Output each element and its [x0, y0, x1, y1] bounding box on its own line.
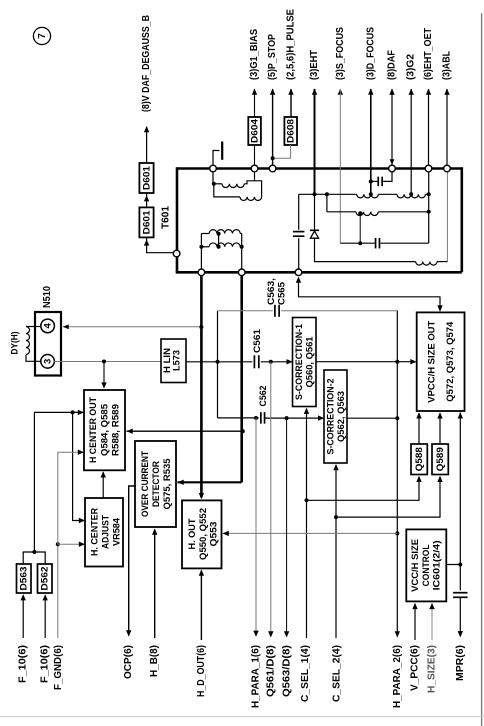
svg-text:(3)ABL: (3)ABL	[442, 51, 453, 80]
wire H_B	[154, 530, 156, 639]
capacitor on S_FOCUS line	[375, 238, 377, 249]
capacitor DAF coupling	[377, 177, 379, 187]
svg-text:C562: C562	[258, 386, 269, 407]
diode box D608	[284, 117, 297, 145]
wire DAF vertical	[391, 89, 393, 165]
wire F_GND to H CENTER OUT	[58, 452, 83, 544]
svg-text:C565: C565	[276, 281, 287, 305]
block VCC/H SIZE CONTROL IC601	[406, 529, 446, 601]
page fold line bottom	[0, 716, 484, 718]
svg-text:(2,5,6)H_PULSE: (2,5,6)H_PULSE	[286, 9, 297, 80]
wire riser lower	[298, 238, 300, 269]
diode box D563	[17, 564, 32, 593]
svg-text:Q563/D(8): Q563/D(8)	[282, 645, 293, 697]
svg-text:T601: T601	[161, 206, 172, 229]
svg-text:H_D_OUT(6): H_D_OUT(6)	[196, 645, 207, 697]
junction H_PARA_1 tap	[254, 416, 258, 420]
svg-text:7: 7	[37, 33, 48, 39]
wire OCP	[129, 486, 136, 636]
junction Q561/D tap	[269, 360, 273, 364]
capacitor C561	[253, 355, 255, 368]
svg-text:Q588: Q588	[414, 447, 425, 471]
svg-text:(3)S_FOCUS: (3)S_FOCUS	[335, 27, 346, 80]
wire EHT to diode	[314, 194, 316, 230]
wire to H CENTER OUT right	[127, 430, 242, 432]
wire D608 jog to P_STOP line	[273, 145, 291, 158]
winding T601 S2	[214, 184, 240, 197]
wire row2 tap riser	[359, 213, 361, 244]
node T601 pin G1_BIAS	[251, 165, 258, 172]
wire H_PARA_2 to H.OUT right	[223, 532, 398, 534]
wire C563 line left	[218, 310, 273, 312]
wire bus primary-right down	[240, 276, 243, 483]
wire bus primary-left down to H.OUT	[200, 276, 203, 498]
svg-text:(3)EHT: (3)EHT	[309, 50, 320, 80]
svg-text:(3)D_FOCUS: (3)D_FOCUS	[365, 27, 376, 80]
wire riser C-select	[217, 311, 219, 418]
block S-CORRECTION-2 Q562 Q563	[324, 370, 347, 463]
node T601 pin primary right	[238, 269, 245, 276]
svg-text:Q589: Q589	[435, 447, 446, 471]
svg-text:(6)EHT_OET: (6)EHT_OET	[423, 28, 434, 80]
junction row1 right	[427, 192, 431, 196]
wire P left rail	[200, 234, 202, 270]
wire D604 to node	[254, 145, 256, 165]
svg-text:VCC/H SIZE: VCC/H SIZE	[410, 539, 421, 592]
junction Q563/D tap	[285, 416, 289, 420]
winding T601 C	[356, 212, 378, 216]
junction tap bottom	[217, 245, 221, 249]
junction MPR	[458, 563, 462, 567]
wire EHT_OET vertical upper	[428, 89, 430, 165]
diode box D601 upper	[139, 163, 153, 193]
junction tap top	[217, 232, 221, 236]
junction D608-P_STOP	[271, 156, 275, 160]
node T601 pin top1	[210, 165, 217, 172]
svg-text:MPR(6): MPR(6)	[455, 645, 466, 681]
svg-text:C_SEL_1(4): C_SEL_1(4)	[300, 645, 311, 702]
winding T601 A	[357, 194, 379, 198]
svg-text:Q584, Q585: Q584, Q585	[100, 403, 111, 456]
svg-text:V_PCC(6): V_PCC(6)	[410, 645, 421, 691]
wire C_SEL_2	[335, 465, 337, 638]
wire H CENTER ADJUST to H CENTER OUT	[102, 472, 104, 498]
wire EHT vertical	[314, 89, 316, 194]
winding T601 S1	[214, 183, 222, 185]
svg-text:VR584: VR584	[112, 517, 123, 546]
wire MPR upper	[459, 413, 461, 591]
wire winding D to ABL rail	[437, 261, 447, 263]
svg-text:3: 3	[43, 359, 54, 364]
junction H_PARA_2 mid	[395, 360, 399, 364]
wire cap to DAF node	[383, 172, 392, 182]
svg-text:Q572, Q573, Q574: Q572, Q573, Q574	[445, 321, 456, 402]
svg-text:H_PARA_2(6): H_PARA_2(6)	[392, 645, 403, 708]
svg-text:S-CORRECTION-2: S-CORRECTION-2	[326, 379, 337, 455]
svg-text:N510: N510	[42, 286, 53, 308]
wire MPR lower	[459, 597, 461, 636]
wire Q589 base feed	[336, 477, 440, 517]
svg-text:D608: D608	[286, 119, 297, 143]
svg-text:Q553: Q553	[209, 522, 220, 547]
junction row2 right	[427, 210, 431, 214]
junction row1 EHT	[313, 192, 317, 196]
wire thick top rail of T601 secondary	[177, 167, 462, 170]
wire thick left rail	[176, 167, 179, 272]
wire row1-row2 link	[326, 194, 328, 212]
svg-text:H. CENTER: H. CENTER	[90, 508, 101, 556]
svg-text:F_GND(6): F_GND(6)	[53, 645, 64, 690]
svg-text:H_SIZE(3): H_SIZE(3)	[427, 645, 438, 693]
diode box D601 lower	[139, 207, 153, 237]
svg-text:IC601(2/4): IC601(2/4)	[432, 540, 443, 590]
svg-text:DETECTOR: DETECTOR	[151, 461, 162, 507]
svg-text:(3)G1_BIAS: (3)G1_BIAS	[249, 29, 260, 80]
wire diode to winding D	[315, 238, 416, 261]
svg-text:F_10(6): F_10(6)	[40, 645, 51, 683]
junction C_SEL_2 Q589	[334, 515, 338, 519]
node T601 pin P_STOP	[269, 165, 276, 172]
svg-text:F_10(6): F_10(6)	[18, 645, 29, 683]
wire F_10 a	[22, 595, 24, 638]
wire secondary row1	[299, 193, 357, 195]
page number circle 7	[33, 27, 50, 44]
svg-text:R588, R589: R588, R589	[111, 404, 122, 456]
svg-text:VPCC/H SIZE OUT: VPCC/H SIZE OUT	[427, 321, 438, 403]
svg-text:DY(H): DY(H)	[10, 332, 21, 355]
junction F_GND branch	[56, 542, 60, 546]
winding T601 D	[416, 262, 437, 266]
connector pin 4	[41, 319, 55, 333]
block OVER CURRENT DETECTOR Q575 R535	[135, 441, 176, 527]
svg-text:H. OUT: H. OUT	[187, 518, 198, 549]
svg-text:C561: C561	[252, 328, 263, 353]
wire diode header bar	[23, 552, 45, 564]
junction C_SEL_1 Q588	[305, 498, 309, 502]
winding T601 B	[397, 194, 425, 198]
inductor deflection yoke	[26, 327, 30, 355]
wire G1_BIAS to D604	[254, 89, 256, 117]
junction pin3 branch	[102, 360, 106, 364]
wire C562 to S-CORRECTION-2	[265, 417, 324, 419]
wire P right rail	[241, 234, 243, 270]
arrow into upper D601	[144, 195, 149, 201]
svg-text:D604: D604	[249, 118, 260, 143]
wire S1 tap from node	[212, 165, 214, 184]
svg-text:OVER CURRENT: OVER CURRENT	[140, 451, 151, 517]
wire between D601 boxes	[146, 193, 148, 207]
wire C_SEL_1	[306, 409, 308, 639]
wire C563 line right	[281, 310, 397, 312]
junction bus H-center	[240, 429, 244, 433]
wire VPCC to flyback node	[299, 278, 441, 311]
junction diode bar	[32, 550, 36, 554]
winding T601 P2	[201, 246, 209, 248]
wire S_FOCUS vertical	[339, 89, 341, 243]
junction row1 link	[325, 192, 329, 196]
wire thick right rail	[460, 167, 463, 272]
svg-text:D601: D601	[141, 165, 152, 190]
transistor box Q588	[411, 444, 427, 475]
diode on EHT branch	[310, 229, 319, 231]
svg-text:(8)DAF: (8)DAF	[387, 50, 398, 80]
wire C561 to S-CORRECTION-1	[261, 361, 292, 363]
wire H LIN to C561	[186, 361, 252, 363]
wire thick bottom rail	[176, 271, 462, 274]
junction H_PARA_2 low	[395, 416, 399, 420]
wire S-CORRECTION-1 out to VPCC	[316, 361, 416, 363]
wire P center tap riser	[218, 234, 220, 247]
wire F_10 b	[44, 595, 46, 638]
capacitor on MPR line	[453, 592, 468, 594]
wire IC601 to MPR net	[446, 564, 460, 566]
wire Q588 collector to VPCC	[418, 413, 420, 444]
svg-text:(3)G2: (3)G2	[406, 54, 417, 80]
svg-text:CONTROL: CONTROL	[421, 544, 432, 586]
wire H_PARA_1	[255, 418, 257, 636]
svg-text:OCP(6): OCP(6)	[123, 645, 134, 679]
junction row1 D_FOCUS	[369, 192, 373, 196]
junction row2 tap	[358, 211, 362, 215]
wire Q561/D	[270, 362, 272, 637]
node T601 pin EHT_OET	[425, 165, 432, 172]
wire H_D_OUT	[200, 571, 202, 641]
wire H_PARA_2 vertical	[396, 311, 398, 637]
wire D_FOCUS vertical	[370, 89, 372, 194]
diode box D562	[38, 564, 53, 593]
svg-text:L573: L573	[172, 350, 183, 371]
svg-text:Q550, Q552: Q550, Q552	[198, 508, 209, 560]
wire C562 line	[218, 417, 259, 419]
wire Q563/D	[286, 418, 288, 636]
block H CENTER OUT Q584 Q585 R588 R589	[84, 390, 125, 470]
wire H_PULSE to D608	[290, 89, 292, 117]
wire F net to ADJUST	[73, 412, 84, 520]
junction H_PARA_2 grey line	[395, 531, 399, 535]
node T601 pin VPCC	[295, 269, 302, 276]
junction P2 left	[199, 245, 203, 249]
wire S_FOCUS cap line left	[340, 242, 374, 244]
wire bus to over-current detector	[178, 481, 242, 483]
connector pin 3	[41, 355, 55, 369]
wire D_FOCUS to cap	[371, 180, 378, 182]
junction riser crossing	[216, 360, 220, 364]
svg-text:4: 4	[43, 323, 54, 329]
block H. CENTER ADJUST VR584	[85, 498, 123, 567]
block VPCC/H SIZE OUT Q572 Q573 Q574	[417, 312, 465, 411]
node T601 pin primary left	[198, 269, 205, 276]
svg-text:H_PARA_1(6): H_PARA_1(6)	[250, 645, 261, 708]
node T601 pin DAF	[389, 165, 396, 172]
svg-text:(8)V DAF_DEGAUSS_B: (8)V DAF_DEGAUSS_B	[141, 15, 152, 112]
wire pin3 to H LIN	[54, 361, 161, 363]
wire D601 to degauss arrow	[146, 127, 148, 163]
wire row1 riser upper	[298, 194, 300, 230]
wire F_GND to ADJUST	[58, 543, 84, 545]
diode box D604	[248, 117, 261, 145]
wire ABL vertical lower	[446, 172, 448, 262]
arrow into lower D601	[144, 239, 149, 245]
wire S_FOCUS cap line right	[380, 242, 428, 244]
svg-text:H_B(8): H_B(8)	[149, 645, 160, 677]
wire V_PCC	[414, 604, 416, 640]
capacitor C563 C565	[274, 305, 276, 317]
svg-text:D601: D601	[141, 210, 152, 235]
transistor box Q589	[432, 444, 448, 475]
svg-text:Q562, Q563: Q562, Q563	[336, 391, 347, 442]
wire G2 vertical	[410, 89, 412, 194]
svg-text:C_SEL_2(4): C_SEL_2(4)	[332, 645, 343, 702]
node T601 pin ABL	[444, 165, 451, 172]
svg-text:Q561/D(8): Q561/D(8)	[265, 645, 276, 697]
wire pin4 to bus	[63, 326, 202, 328]
svg-text:ADJUST: ADJUST	[101, 515, 112, 549]
wire branch to H CENTER OUT top	[103, 362, 105, 388]
wire P_STOP line	[272, 89, 274, 165]
capacitor C562	[260, 412, 262, 424]
junction pin4 bus	[199, 325, 203, 329]
wire D601 feed from node	[147, 237, 177, 252]
wire ABL vertical upper	[446, 89, 448, 165]
wire S-CORR-2 out right	[347, 417, 397, 419]
svg-text:(5)P_STOP: (5)P_STOP	[267, 34, 278, 80]
inductor box H LIN L573	[161, 339, 186, 383]
connector N510	[35, 312, 61, 376]
block S-CORRECTION-1 Q560 Q561	[293, 318, 317, 407]
svg-text:Q560, Q561: Q560, Q561	[305, 336, 316, 388]
ground symbol	[213, 151, 220, 166]
winding T601 P1	[201, 233, 209, 235]
wire EHT_OET vertical lower	[428, 172, 430, 243]
junction D_FOCUS cap	[369, 179, 373, 183]
junction tap capline	[358, 241, 362, 245]
svg-text:H CENTER OUT: H CENTER OUT	[88, 397, 99, 463]
capacitor on riser	[293, 231, 305, 233]
wire H_SIZE	[431, 604, 433, 640]
wire F net riser	[34, 412, 83, 552]
junction F net branch	[71, 410, 75, 414]
block H. OUT Q550 Q552 Q553	[182, 500, 222, 568]
wire Q589 collector to VPCC	[439, 413, 441, 444]
wire secondary row2	[327, 211, 356, 213]
svg-text:D562: D562	[40, 567, 51, 591]
node T601 pin to D601	[173, 250, 180, 257]
junction P2 right	[240, 245, 244, 249]
svg-text:D563: D563	[19, 567, 30, 591]
junction S1 start	[212, 182, 216, 186]
wire F_GND riser	[57, 544, 59, 638]
junction row1 G2	[409, 192, 413, 196]
wire Q588 base feed	[307, 477, 420, 501]
svg-text:Q575, R535: Q575, R535	[162, 458, 173, 510]
page border right edge	[481, 13, 483, 726]
